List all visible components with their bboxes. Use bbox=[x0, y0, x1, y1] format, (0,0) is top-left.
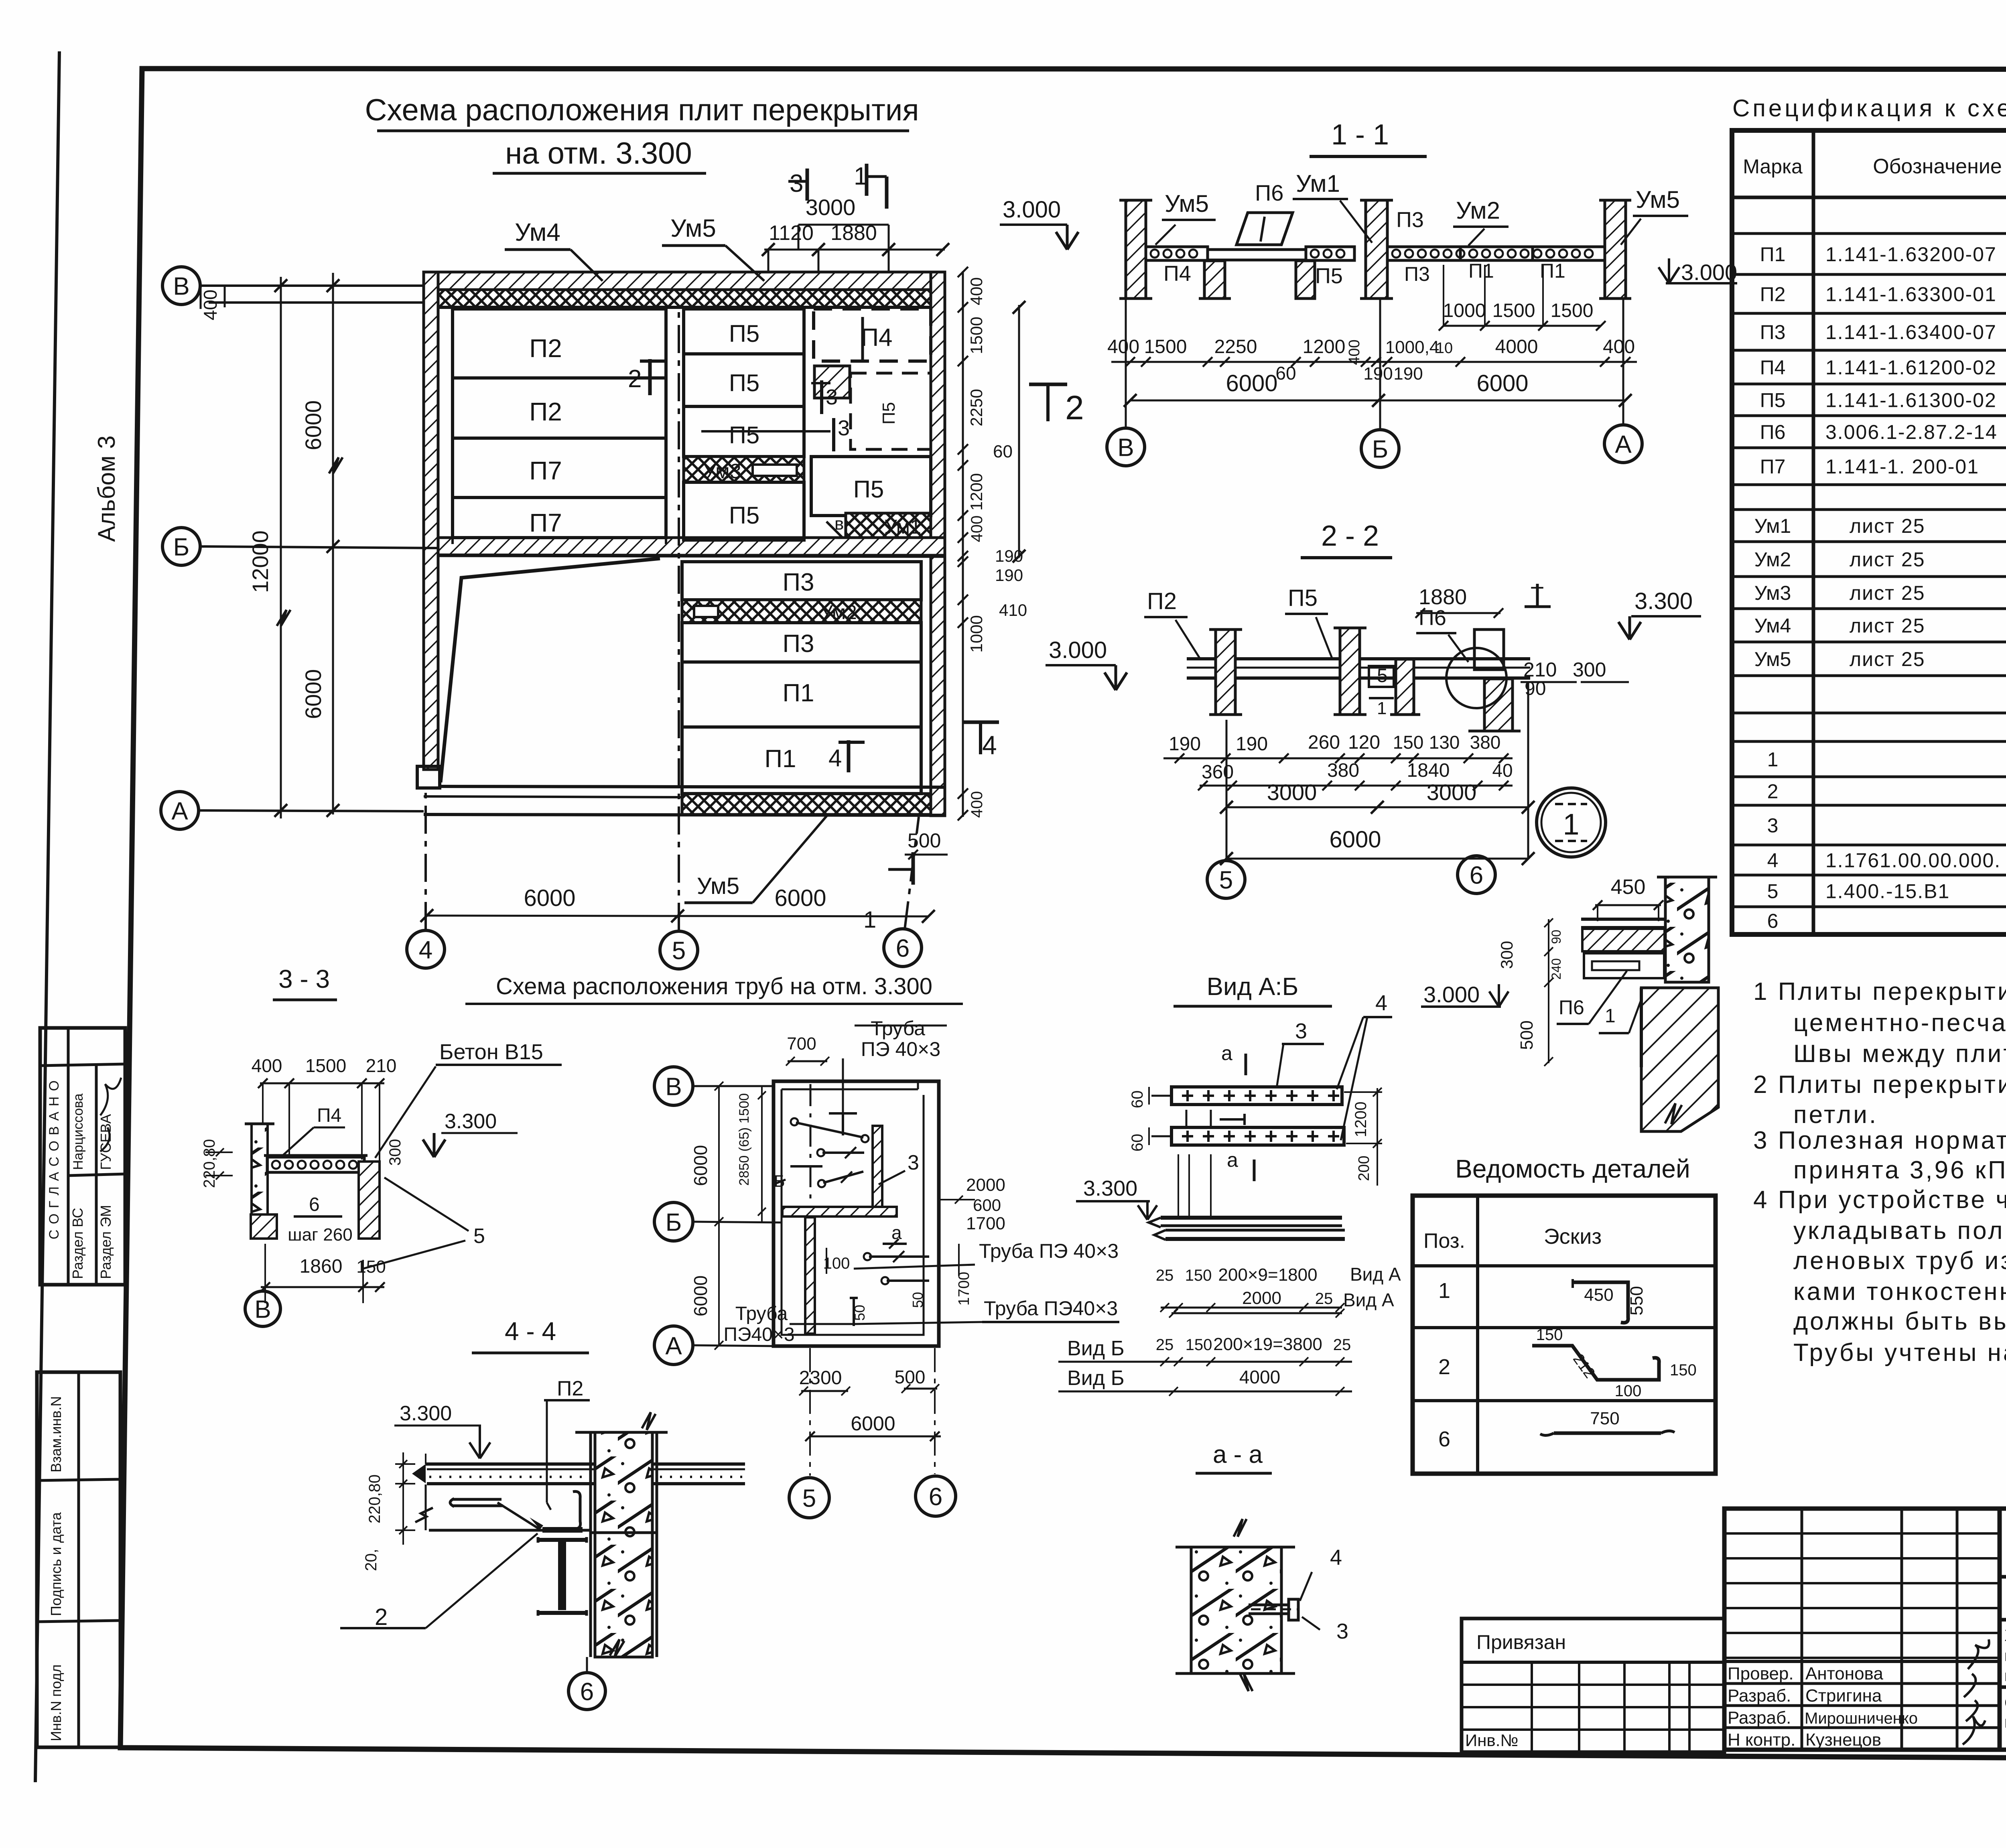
svg-text:Хлораторная для обеззараживани: Хлораторная для обеззараживании bbox=[2004, 1627, 2006, 1645]
svg-text:укладывать полиэтиленовые труб: укладывать полиэтиленовые трубы. Выводы … bbox=[1793, 1217, 2006, 1245]
svg-text:Эскиз: Эскиз bbox=[1544, 1225, 1602, 1249]
svg-text:ками тонкостенных стальных тру: ками тонкостенных стальных труб, которые bbox=[1793, 1278, 2006, 1306]
vedomost sketch 6 bbox=[1554, 1432, 1661, 1435]
svg-text:6000: 6000 bbox=[524, 885, 575, 911]
svg-text:2250: 2250 bbox=[967, 389, 986, 426]
svg-text:В: В bbox=[254, 1296, 271, 1323]
svg-text:500: 500 bbox=[908, 829, 941, 852]
svg-text:леновых труб из подливок пола: леновых труб из подливок пола защитить о… bbox=[1793, 1247, 2006, 1275]
svg-text:П3: П3 bbox=[782, 630, 814, 658]
plan: left dimension lines bbox=[332, 273, 334, 814]
svg-text:Обозначение: Обозначение bbox=[1873, 155, 2002, 178]
svg-text:1: 1 bbox=[1605, 1005, 1616, 1027]
plan: slab П5 row4 bbox=[684, 482, 804, 540]
section 2-2 pier mid bbox=[1340, 628, 1360, 715]
svg-text:400: 400 bbox=[967, 277, 986, 305]
section 1-1 slab П5 bbox=[1306, 247, 1354, 260]
svg-text:700: 700 bbox=[787, 1034, 816, 1054]
svg-text:П2: П2 bbox=[557, 1377, 583, 1400]
svg-text:а - а: а - а bbox=[1213, 1441, 1263, 1468]
svg-text:4: 4 bbox=[1330, 1545, 1342, 1570]
svg-text:4: 4 bbox=[828, 745, 842, 772]
svg-text:П5: П5 bbox=[1760, 389, 1786, 412]
svg-text:П1: П1 bbox=[782, 679, 814, 707]
svg-text:Труба: Труба bbox=[735, 1303, 788, 1324]
svg-text:1: 1 bbox=[1377, 699, 1387, 718]
svg-text:Н контр.: Н контр. bbox=[1728, 1730, 1795, 1750]
svg-text:1880: 1880 bbox=[830, 221, 877, 245]
svg-text:120: 120 bbox=[1348, 732, 1380, 753]
svg-text:150: 150 bbox=[1185, 1267, 1212, 1284]
svg-text:3 - 3: 3 - 3 bbox=[278, 965, 330, 993]
svg-text:3: 3 bbox=[826, 385, 838, 409]
svg-text:3.300: 3.300 bbox=[400, 1402, 452, 1425]
svg-text:60: 60 bbox=[1275, 363, 1296, 384]
svg-text:1500: 1500 bbox=[967, 317, 986, 354]
svg-text:П5: П5 bbox=[729, 320, 760, 347]
svg-text:ПЭ40×3: ПЭ40×3 bbox=[723, 1324, 794, 1345]
svg-text:П3: П3 bbox=[1404, 263, 1430, 285]
section 3-3 slab bbox=[267, 1157, 364, 1172]
svg-text:2850 (65) 1500: 2850 (65) 1500 bbox=[737, 1093, 752, 1186]
plan: bottom axis circles and dims bbox=[407, 930, 445, 968]
svg-text:А: А bbox=[1615, 431, 1632, 458]
svg-text:П4: П4 bbox=[861, 324, 892, 351]
section 3-3 axis circle В bbox=[245, 1291, 280, 1326]
svg-text:Ведомость деталей: Ведомость деталей bbox=[1455, 1154, 1690, 1183]
svg-text:Труба: Труба bbox=[871, 1017, 925, 1040]
svg-text:В: В bbox=[173, 272, 189, 300]
svg-text:750: 750 bbox=[1590, 1409, 1619, 1428]
svg-text:60: 60 bbox=[1129, 1091, 1146, 1109]
svg-text:Стригина: Стригина bbox=[1805, 1686, 1882, 1706]
svg-text:П4: П4 bbox=[1760, 356, 1786, 379]
svg-text:Вид А: Вид А bbox=[1350, 1264, 1401, 1285]
svg-text:2000: 2000 bbox=[1242, 1288, 1281, 1308]
svg-text:ПЭ 40×3: ПЭ 40×3 bbox=[861, 1038, 940, 1060]
svg-text:1.141-1.61200-02: 1.141-1.61200-02 bbox=[1825, 356, 1997, 379]
plan: middle wall band on axis Б bbox=[438, 538, 945, 555]
vedomost sketch 1 bbox=[1573, 1282, 1628, 1323]
svg-text:Швы между плитами тщательно за: Швы между плитами тщательно забить бетон… bbox=[1793, 1040, 2006, 1068]
svg-text:П6: П6 bbox=[1419, 606, 1446, 630]
svg-text:60: 60 bbox=[1129, 1134, 1146, 1152]
svg-text:1.141-1.63400-07: 1.141-1.63400-07 bbox=[1825, 321, 1997, 343]
plan: top wall band bbox=[424, 272, 945, 290]
svg-text:10: 10 bbox=[1436, 340, 1453, 357]
svg-text:2300: 2300 bbox=[799, 1367, 842, 1389]
svg-text:П2: П2 bbox=[529, 334, 562, 363]
section 2-2 axis circles bbox=[1207, 861, 1245, 898]
svg-text:4: 4 bbox=[1767, 849, 1779, 872]
svg-text:3.000: 3.000 bbox=[1681, 260, 1737, 285]
svg-text:300: 300 bbox=[1573, 658, 1606, 681]
svg-text:П7: П7 bbox=[1760, 455, 1786, 478]
section 2-2 3000 3000 bbox=[1226, 806, 1528, 808]
svg-text:Вид Б: Вид Б bbox=[1067, 1337, 1125, 1360]
svg-text:1840: 1840 bbox=[1407, 760, 1450, 781]
svg-text:1860: 1860 bbox=[300, 1256, 343, 1277]
svg-text:190: 190 bbox=[1236, 733, 1268, 755]
section 2-2 dim lines bbox=[1163, 757, 1513, 760]
svg-text:3.300: 3.300 bbox=[445, 1110, 497, 1133]
svg-text:Трубы учтены на листах ЭМ.: Трубы учтены на листах ЭМ. bbox=[1793, 1339, 2006, 1367]
detail: slab and monolithic layers bbox=[1581, 918, 1665, 921]
svg-text:5: 5 bbox=[802, 1484, 816, 1512]
svg-text:шаг 260: шаг 260 bbox=[288, 1225, 352, 1245]
svg-text:150: 150 bbox=[1670, 1361, 1697, 1379]
plan: slab П2 row2 bbox=[453, 378, 666, 438]
svg-text:200: 200 bbox=[1356, 1156, 1373, 1181]
svg-text:190: 190 bbox=[1169, 733, 1201, 755]
spec table grid bbox=[1732, 130, 2006, 934]
pipes axis circles bbox=[654, 1067, 693, 1105]
svg-text:П5: П5 bbox=[729, 370, 760, 396]
plan: right dimension string bbox=[962, 271, 964, 817]
svg-text:должны быть выведены выше пола: должны быть выведены выше пола на 200мм. bbox=[1793, 1308, 2006, 1335]
svg-text:6000: 6000 bbox=[1476, 370, 1528, 396]
svg-text:6: 6 bbox=[580, 1678, 594, 1706]
plan: small cells right bbox=[814, 366, 850, 398]
svg-text:Взам.инв.N: Взам.инв.N bbox=[48, 1396, 64, 1472]
4-4 anchor hook bbox=[453, 1499, 503, 1506]
svg-text:25: 25 bbox=[1315, 1290, 1333, 1308]
svg-text:Бетон В15: Бетон В15 bbox=[439, 1040, 543, 1064]
svg-text:6000: 6000 bbox=[1226, 370, 1277, 396]
detail: wall column bbox=[1665, 877, 1709, 982]
title block: central grid bbox=[1724, 1509, 2000, 1750]
svg-text:Спецификация к схеме расположе: Спецификация к схеме расположения плит п… bbox=[1732, 95, 2006, 122]
svg-text:П5: П5 bbox=[1288, 585, 1318, 611]
svg-text:1 Плиты перекрытия укладывать: 1 Плиты перекрытия укладывать по свежеул… bbox=[1753, 978, 2006, 1005]
svg-text:150: 150 bbox=[356, 1257, 386, 1277]
plan: slab П2 row1 bbox=[453, 309, 666, 378]
svg-text:П5: П5 bbox=[729, 422, 760, 449]
stamp: inventory box bbox=[37, 1372, 120, 1747]
vid AB verticals below bbox=[1178, 1154, 1179, 1216]
svg-text:П6: П6 bbox=[1760, 421, 1786, 443]
plan: slab П4 bbox=[814, 309, 931, 361]
svg-text:1500: 1500 bbox=[1551, 300, 1594, 321]
svg-text:400: 400 bbox=[1107, 336, 1139, 357]
title block: left attach table bbox=[1462, 1619, 1724, 1752]
svg-text:Вид А: Вид А bbox=[1343, 1290, 1394, 1310]
svg-text:3.300: 3.300 bbox=[1634, 588, 1693, 614]
svg-text:1200: 1200 bbox=[1352, 1102, 1370, 1137]
svg-text:Ум3: Ум3 bbox=[1754, 582, 1791, 604]
section 1-1 pier bbox=[1204, 261, 1225, 299]
svg-text:лист 25: лист 25 bbox=[1850, 515, 1925, 537]
section 1-1 middle wall bbox=[1366, 200, 1387, 299]
svg-text:А: А bbox=[171, 797, 188, 825]
svg-text:3.000: 3.000 bbox=[1423, 982, 1480, 1007]
svg-text:П1: П1 bbox=[764, 745, 796, 773]
section 1-1 slab П4 bbox=[1146, 247, 1208, 260]
svg-text:3.300: 3.300 bbox=[1083, 1176, 1137, 1200]
svg-text:500: 500 bbox=[1517, 1020, 1537, 1050]
svg-text:6: 6 bbox=[929, 1483, 942, 1511]
svg-text:3000: 3000 bbox=[806, 195, 856, 220]
svg-text:Кузнецов: Кузнецов bbox=[1805, 1730, 1881, 1750]
svg-text:130: 130 bbox=[1429, 732, 1460, 753]
svg-text:20,: 20, bbox=[362, 1549, 380, 1571]
svg-text:Вид Б: Вид Б bbox=[1067, 1367, 1125, 1390]
svg-text:1200: 1200 bbox=[1303, 336, 1346, 357]
svg-text:1.1761.00.00.000.: 1.1761.00.00.000. bbox=[1825, 849, 2001, 872]
svg-text:6000: 6000 bbox=[690, 1275, 711, 1316]
plan: bottom wall / strip Um5 bbox=[682, 794, 931, 814]
plan: left wall foot bbox=[417, 766, 440, 788]
section 2-2 right end bbox=[1474, 630, 1504, 670]
svg-text:П5: П5 bbox=[853, 476, 884, 503]
svg-text:1 - 1: 1 - 1 bbox=[1331, 119, 1389, 151]
svg-text:Ум5: Ум5 bbox=[697, 873, 739, 899]
svg-text:1000,4: 1000,4 bbox=[1385, 337, 1440, 357]
svg-text:1200: 1200 bbox=[967, 473, 986, 510]
svg-text:190: 190 bbox=[1363, 364, 1393, 384]
title block: right part bbox=[2000, 1509, 2006, 1750]
svg-text:П6: П6 bbox=[1255, 180, 1283, 205]
svg-text:2: 2 bbox=[1767, 780, 1779, 803]
svg-text:Схема расположения плит перекр: Схема расположения плит перекрытия bbox=[365, 93, 919, 127]
plan: 400 dim at top left bbox=[200, 286, 202, 309]
sheet outer trim line (left) bbox=[35, 51, 59, 1782]
svg-text:Б: Б bbox=[666, 1208, 682, 1236]
svg-text:Привязан: Привязан bbox=[1476, 1631, 1566, 1653]
svg-text:400: 400 bbox=[968, 791, 986, 818]
plan: dashed edge of П2/П7 column bbox=[451, 309, 454, 550]
section 1-1 axis circles bbox=[1107, 428, 1145, 466]
svg-text:Нарциссова: Нарциссова bbox=[71, 1093, 86, 1170]
plan: monolithic strip Ум1 bbox=[846, 513, 931, 538]
detail: wall mass below bbox=[1641, 988, 1718, 1131]
svg-text:Ум1: Ум1 bbox=[1754, 515, 1791, 537]
spec table rows bbox=[1732, 232, 2006, 235]
svg-text:Ум5: Ум5 bbox=[1636, 186, 1680, 213]
svg-text:6: 6 bbox=[1767, 910, 1779, 932]
svg-text:400: 400 bbox=[1603, 336, 1635, 357]
svg-text:5: 5 bbox=[473, 1225, 485, 1248]
svg-text:Ум4: Ум4 bbox=[515, 219, 560, 246]
svg-text:1000: 1000 bbox=[1443, 300, 1486, 321]
section 1-1 pier2 bbox=[1296, 261, 1315, 299]
section 2-2 pier small bbox=[1396, 659, 1414, 715]
svg-text:Альбом 3: Альбом 3 bbox=[93, 435, 120, 542]
svg-text:600: 600 bbox=[973, 1196, 1001, 1214]
svg-text:Труба ПЭ40×3: Труба ПЭ40×3 bbox=[984, 1297, 1118, 1320]
svg-text:3 Полезная нормативная нагруз: 3 Полезная нормативная нагрузка на перек… bbox=[1753, 1127, 2006, 1154]
svg-text:1880: 1880 bbox=[1419, 585, 1467, 609]
svg-text:400: 400 bbox=[200, 290, 221, 321]
svg-text:6: 6 bbox=[1470, 861, 1483, 889]
svg-text:Ум3: Ум3 bbox=[703, 460, 741, 483]
pipes interior walls bbox=[873, 1126, 882, 1207]
svg-text:П5: П5 bbox=[1315, 264, 1343, 288]
4-4 I-beam bbox=[538, 1540, 587, 1613]
svg-text:П4: П4 bbox=[1163, 262, 1191, 286]
svg-text:на отм. 3.300: на отм. 3.300 bbox=[505, 136, 692, 171]
svg-text:3.000: 3.000 bbox=[1003, 197, 1061, 223]
svg-text:6: 6 bbox=[309, 1194, 320, 1215]
vid AB beam bbox=[1161, 1216, 1342, 1220]
svg-text:А: А bbox=[665, 1332, 682, 1360]
4-4 axis circle 6 bbox=[569, 1673, 605, 1710]
svg-text:400: 400 bbox=[968, 516, 986, 542]
svg-text:ГУСЕВА: ГУСЕВА bbox=[97, 1114, 114, 1170]
svg-text:1: 1 bbox=[1563, 808, 1579, 841]
svg-text:1500: 1500 bbox=[1492, 300, 1535, 321]
svg-text:2: 2 bbox=[1438, 1355, 1450, 1379]
svg-text:1500: 1500 bbox=[1144, 336, 1187, 357]
svg-text:40: 40 bbox=[1492, 760, 1513, 781]
svg-text:Инв.№: Инв.№ bbox=[1465, 1731, 1518, 1750]
svg-text:Подпись и дата: Подпись и дата bbox=[48, 1512, 64, 1616]
svg-text:Ум5: Ум5 bbox=[670, 215, 716, 242]
svg-text:Ум5: Ум5 bbox=[1754, 648, 1791, 670]
svg-text:П2: П2 bbox=[529, 397, 562, 426]
svg-text:4000: 4000 bbox=[1239, 1367, 1280, 1387]
svg-text:П3: П3 bbox=[782, 569, 814, 596]
section 3-3 wall foot bbox=[251, 1214, 277, 1239]
svg-text:Ум1: Ум1 bbox=[1296, 170, 1340, 197]
svg-text:5: 5 bbox=[1767, 880, 1779, 903]
svg-text:6000: 6000 bbox=[1329, 827, 1381, 853]
svg-text:300: 300 bbox=[1497, 941, 1516, 969]
svg-text:П2: П2 bbox=[1760, 283, 1786, 306]
svg-text:лист 25: лист 25 bbox=[1850, 648, 1925, 670]
svg-text:6000: 6000 bbox=[300, 400, 326, 451]
svg-text:1: 1 bbox=[1438, 1279, 1450, 1303]
svg-text:150: 150 bbox=[1393, 732, 1424, 753]
section 2-2 pier left bbox=[1216, 630, 1235, 715]
plan: outer right dim line bbox=[1018, 305, 1020, 558]
section 1-1 П6 rhomb label bbox=[1236, 213, 1293, 245]
svg-text:2000: 2000 bbox=[966, 1175, 1005, 1195]
svg-text:380: 380 bbox=[1470, 732, 1501, 753]
svg-text:1.141-1.61300-02: 1.141-1.61300-02 bbox=[1825, 389, 1997, 412]
svg-text:550: 550 bbox=[1627, 1286, 1647, 1315]
svg-text:6000: 6000 bbox=[774, 885, 826, 911]
svg-text:1120: 1120 bbox=[769, 221, 814, 245]
section 1-1 slabs П3 П1 П1 right bbox=[1387, 247, 1605, 260]
svg-text:В: В bbox=[665, 1073, 682, 1101]
svg-text:В: В bbox=[1117, 434, 1134, 461]
svg-text:Раздел ВС: Раздел ВС bbox=[69, 1208, 86, 1279]
svg-text:210: 210 bbox=[366, 1055, 397, 1076]
4-4 wall bbox=[595, 1432, 652, 1657]
svg-text:6000: 6000 bbox=[300, 669, 326, 719]
svg-text:П4: П4 bbox=[317, 1105, 341, 1126]
svg-text:50: 50 bbox=[910, 1292, 926, 1308]
svg-text:Схема расположения плит: Схема расположения плит bbox=[2004, 1693, 2006, 1712]
plan: slab П7 row1 bbox=[453, 438, 666, 498]
4-4 channel piece bbox=[573, 1491, 581, 1529]
svg-text:12000: 12000 bbox=[248, 530, 273, 593]
svg-text:Б: Б bbox=[173, 533, 190, 561]
svg-text:Ум2: Ум2 bbox=[1754, 548, 1791, 571]
svg-text:1.141-1.63300-01: 1.141-1.63300-01 bbox=[1825, 283, 1997, 306]
svg-text:4: 4 bbox=[982, 730, 997, 760]
plan: lower right slabs П3/П3/П1/П1 bbox=[682, 562, 921, 600]
svg-text:2 - 2: 2 - 2 bbox=[1321, 520, 1379, 552]
plan: monolithic strip Um4/Um5 along top bbox=[424, 290, 945, 307]
svg-text:360: 360 bbox=[1202, 762, 1234, 783]
svg-text:цементно-песчаному раствору то: цементно-песчаному раствору толщиной 20м… bbox=[1793, 1009, 2006, 1037]
svg-text:П3: П3 bbox=[1396, 208, 1424, 232]
svg-text:1000: 1000 bbox=[967, 615, 986, 652]
svg-text:410: 410 bbox=[999, 601, 1027, 619]
plan: П5 column rows bbox=[684, 309, 804, 354]
pipes lower risers bbox=[869, 1255, 929, 1258]
svg-text:2: 2 bbox=[375, 1604, 388, 1630]
section 1-1 left wall bbox=[1126, 200, 1146, 299]
svg-text:3: 3 bbox=[790, 170, 803, 197]
svg-text:П5: П5 bbox=[729, 502, 760, 529]
detail: vertical dims bbox=[1548, 919, 1549, 1063]
svg-text:П7: П7 bbox=[529, 508, 562, 537]
svg-text:4000: 4000 bbox=[1495, 336, 1538, 357]
svg-text:Провер.: Провер. bbox=[1728, 1664, 1794, 1684]
svg-text:а: а bbox=[1227, 1149, 1238, 1171]
svg-text:П1: П1 bbox=[1760, 243, 1786, 266]
svg-text:4 - 4: 4 - 4 bbox=[505, 1317, 556, 1346]
svg-text:Ум1: Ум1 bbox=[884, 516, 921, 538]
svg-text:петли.: петли. bbox=[1793, 1101, 1878, 1129]
svg-text:6000: 6000 bbox=[690, 1145, 711, 1186]
svg-text:25: 25 bbox=[1333, 1336, 1351, 1354]
svg-text:450: 450 bbox=[1584, 1285, 1613, 1305]
plan: slab П7 row2 bbox=[453, 498, 666, 538]
plan: right wall bbox=[931, 272, 945, 816]
4-4 slab body bbox=[429, 1529, 591, 1532]
svg-text:1.141-1.63200-07: 1.141-1.63200-07 bbox=[1825, 243, 1997, 266]
svg-text:принята 3,96 кПа: принята 3,96 кПа bbox=[1793, 1156, 2006, 1184]
pipes plan walls bbox=[774, 1081, 939, 1346]
a-a bolt bbox=[1249, 1605, 1289, 1614]
section 3-3 left wall bbox=[252, 1124, 268, 1214]
svg-text:5: 5 bbox=[1219, 866, 1233, 894]
svg-text:3: 3 bbox=[908, 1151, 919, 1174]
svg-text:3000: 3000 bbox=[1427, 780, 1477, 805]
svg-text:6: 6 bbox=[896, 934, 910, 962]
svg-text:1: 1 bbox=[863, 907, 876, 933]
svg-text:3.000: 3.000 bbox=[1049, 637, 1107, 663]
vid AB bars bbox=[1172, 1087, 1342, 1105]
svg-text:1500: 1500 bbox=[305, 1055, 346, 1076]
svg-text:Разраб.: Разраб. bbox=[1728, 1686, 1791, 1706]
svg-text:4: 4 bbox=[1375, 991, 1387, 1015]
section 1-1 right wall bbox=[1605, 200, 1626, 299]
svg-text:П6: П6 bbox=[1559, 996, 1584, 1019]
svg-text:260: 260 bbox=[1308, 732, 1340, 753]
svg-text:3: 3 bbox=[1336, 1619, 1348, 1643]
plan: axis row circles bbox=[162, 267, 200, 305]
svg-text:450: 450 bbox=[1611, 875, 1646, 899]
svg-text:240: 240 bbox=[1549, 958, 1563, 979]
svg-text:50: 50 bbox=[851, 1305, 868, 1321]
svg-text:190: 190 bbox=[1393, 364, 1423, 384]
svg-text:2250: 2250 bbox=[1214, 336, 1257, 357]
svg-text:150: 150 bbox=[1536, 1326, 1563, 1344]
section 2-2 узел circle on right pier bbox=[1446, 648, 1507, 708]
svg-text:6: 6 bbox=[1438, 1427, 1450, 1451]
svg-text:3.006.1-2.87.2-14: 3.006.1-2.87.2-14 bbox=[1825, 421, 1998, 443]
svg-text:380: 380 bbox=[1327, 760, 1359, 781]
section 2-2 slab band bbox=[1187, 657, 1530, 660]
svg-text:П7: П7 bbox=[529, 456, 562, 485]
svg-text:Ум4: Ум4 bbox=[1754, 615, 1791, 637]
plan: opening diagonal line bbox=[441, 558, 660, 782]
